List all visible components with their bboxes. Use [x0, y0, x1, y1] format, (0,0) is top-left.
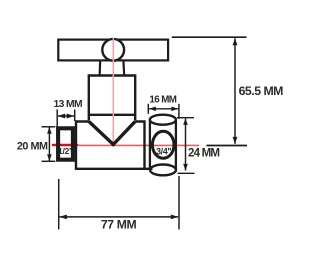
svg-text:1/2": 1/2" [58, 146, 73, 156]
svg-text:77 MM: 77 MM [101, 218, 137, 232]
svg-text:65.5 MM: 65.5 MM [239, 84, 284, 98]
svg-text:24 MM: 24 MM [188, 147, 219, 160]
svg-text:3/4": 3/4" [156, 147, 171, 157]
svg-text:20 MM: 20 MM [17, 141, 48, 153]
svg-text:13 MM: 13 MM [54, 99, 82, 110]
svg-text:16 MM: 16 MM [149, 94, 176, 105]
